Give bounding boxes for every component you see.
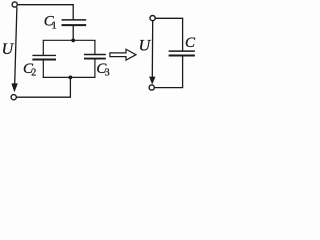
wire C1 top lead — [72, 5, 74, 20]
terminal top-left — [12, 2, 17, 7]
capacitor C2 — [32, 55, 56, 59]
implication arrow — [110, 49, 136, 60]
svg-text:C: C — [185, 35, 196, 51]
terminal top-right — [150, 16, 155, 21]
node M junction dot — [71, 39, 75, 43]
svg-text:1: 1 — [52, 21, 57, 32]
wire C top lead — [182, 18, 184, 51]
wire C2 bottom lead — [42, 60, 44, 77]
wire bottom (left circuit) — [16, 96, 71, 98]
wire parallel-box bottom — [43, 76, 96, 78]
wire top (right circuit) — [155, 17, 183, 19]
capacitor C — [169, 51, 195, 55]
svg-text:2: 2 — [31, 67, 36, 78]
node N junction dot — [69, 76, 73, 80]
svg-text:3: 3 — [105, 67, 110, 78]
wire top (left circuit) — [18, 4, 74, 6]
voltage arrow U (right) — [149, 21, 155, 85]
wire C2 top lead — [42, 40, 44, 55]
svg-text:U: U — [2, 41, 15, 58]
wire C1 bottom lead — [72, 26, 74, 40]
wire node N down lead — [69, 77, 71, 97]
wire C3 bottom lead — [94, 59, 96, 77]
svg-text:U: U — [139, 37, 152, 54]
terminal bottom-left — [11, 95, 16, 100]
capacitor C3 — [84, 55, 106, 59]
voltage arrow U (left) — [11, 7, 17, 92]
terminal bottom-right — [149, 85, 154, 90]
wire C bottom lead — [182, 56, 184, 87]
wire parallel-box top — [43, 39, 96, 41]
capacitor C1 — [62, 20, 87, 25]
wire C3 top lead — [94, 40, 96, 54]
wire bottom (right circuit) — [154, 87, 183, 89]
